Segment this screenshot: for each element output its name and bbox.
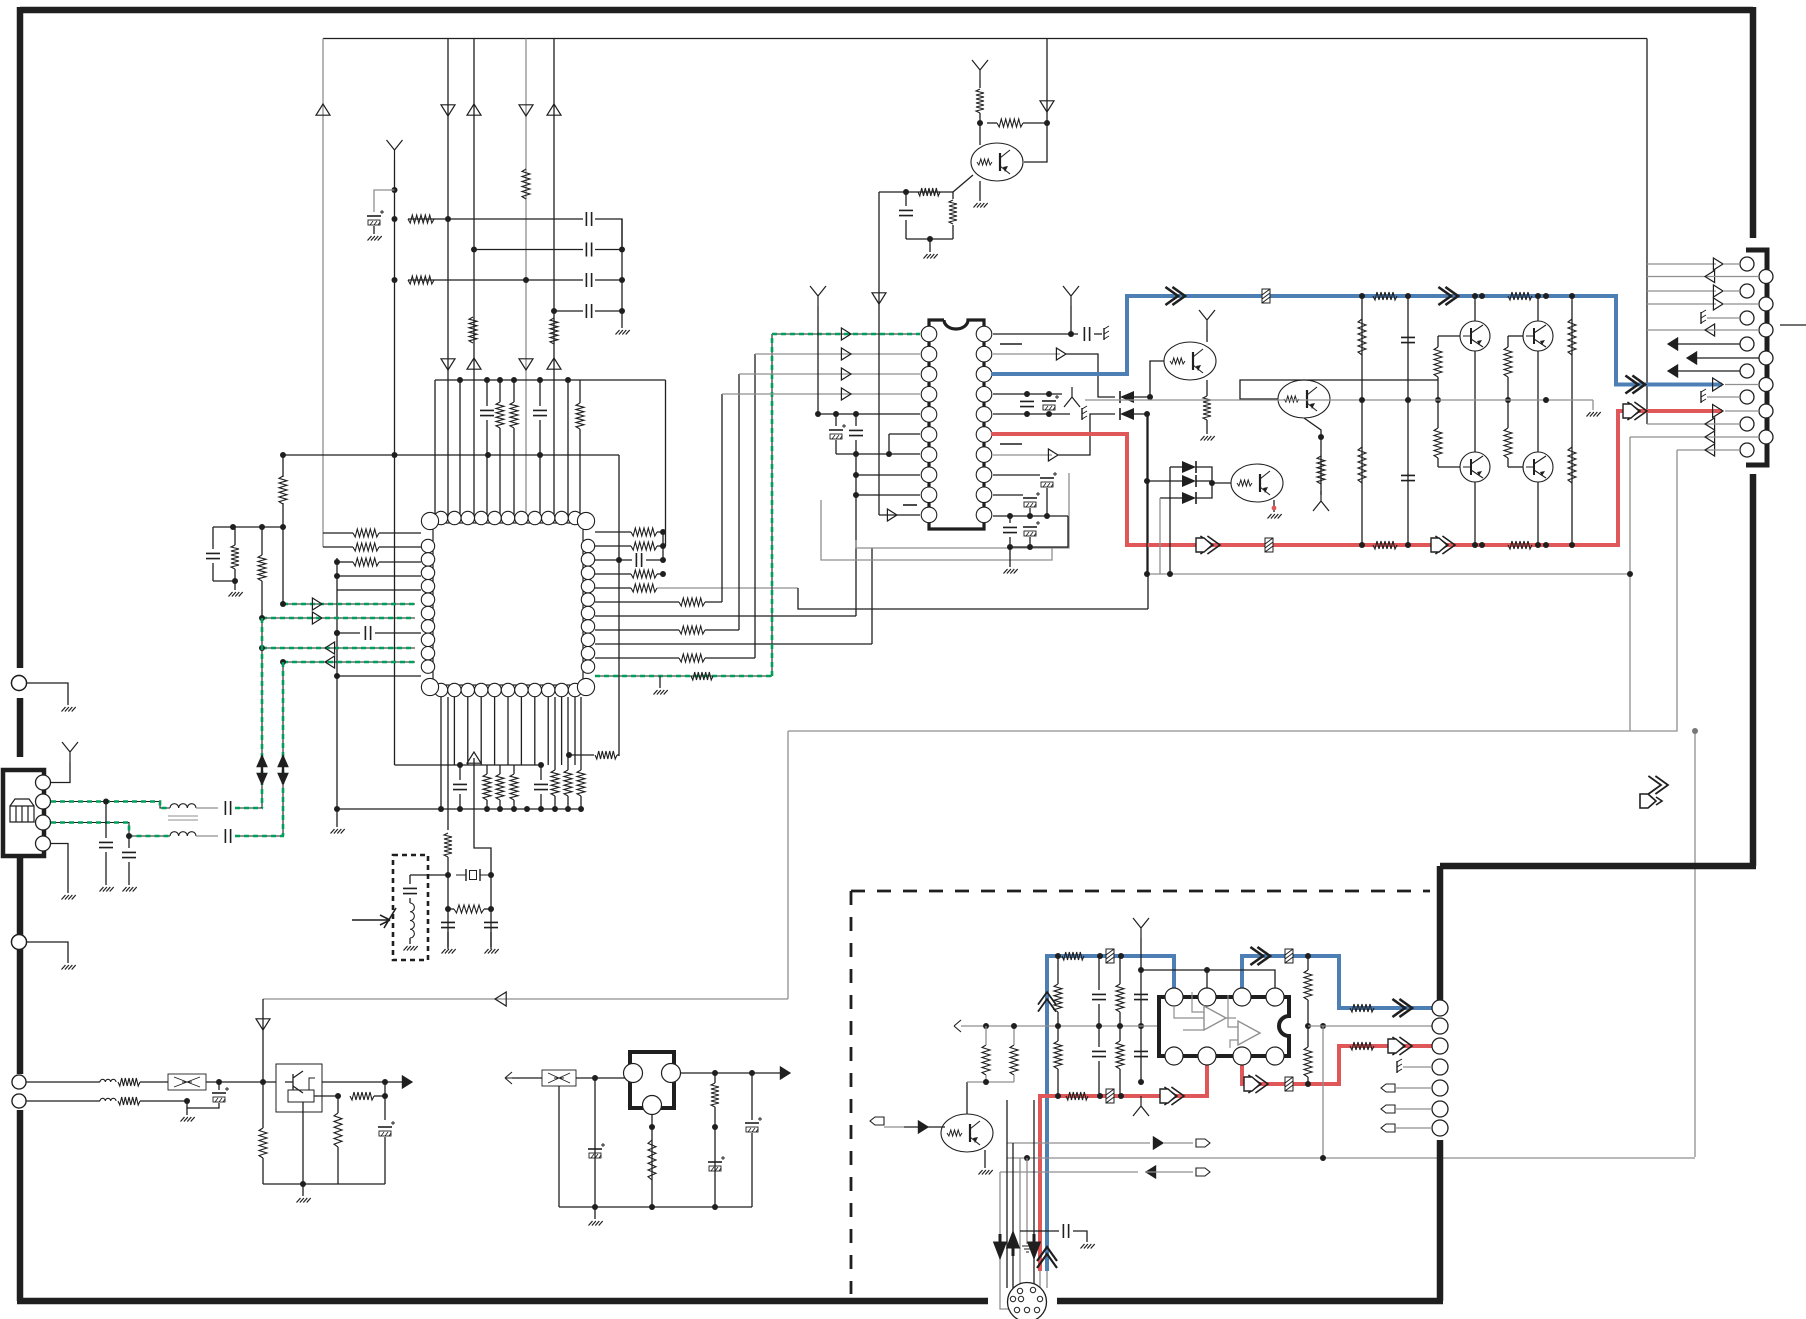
wire [499, 800, 501, 809]
wire [1146, 1171, 1193, 1173]
resistor R3 [408, 276, 434, 284]
resistor R30 [444, 833, 452, 857]
page border right mid [1750, 474, 1757, 866]
wire [1507, 458, 1509, 467]
wire [1029, 537, 1031, 547]
capacitor C17 [849, 430, 863, 435]
wire [128, 836, 130, 848]
junction [1535, 542, 1541, 548]
wire [1009, 537, 1011, 547]
junction [488, 872, 494, 878]
resistor R29 [595, 751, 617, 759]
arrow/buffer [519, 359, 533, 370]
resistor R67 [982, 1045, 990, 1075]
connector pin [1759, 323, 1773, 337]
wire [1647, 290, 1716, 292]
wire [539, 380, 541, 406]
wire [651, 1115, 653, 1207]
wire [579, 429, 581, 516]
wire [322, 39, 324, 548]
connector pin [1759, 404, 1773, 418]
ground [1201, 436, 1215, 441]
wire [408, 279, 583, 281]
signal arrow open [1196, 538, 1212, 552]
wire [835, 440, 837, 454]
ferrite bead FB3 [1106, 949, 1114, 963]
junction [712, 1124, 718, 1130]
wire [1723, 263, 1740, 265]
IC pin [1266, 988, 1284, 1006]
wire [993, 454, 1052, 456]
signal arrow open [1244, 1077, 1260, 1091]
wire [474, 249, 583, 251]
arrow/buffer [1713, 378, 1723, 391]
ground [229, 592, 243, 597]
junction [1027, 544, 1033, 550]
dashed enclosure [851, 891, 1430, 1294]
resistor R14 [353, 558, 379, 566]
wire [512, 1077, 542, 1079]
junction [619, 308, 625, 314]
wire [490, 932, 492, 947]
resistor R13 [353, 543, 379, 551]
wire [282, 503, 284, 604]
inductor L1 [410, 903, 414, 938]
tick mark [1780, 324, 1806, 326]
wire [595, 219, 622, 250]
junction [538, 806, 544, 812]
junction [1318, 434, 1324, 440]
wire [26, 1100, 100, 1102]
transistor Q8 [1523, 452, 1553, 482]
wire [595, 545, 631, 547]
arrow/buffer [402, 1076, 412, 1088]
arrow/buffer [780, 1067, 790, 1079]
wire [410, 874, 448, 876]
wire [263, 998, 788, 1000]
junction [1320, 1023, 1326, 1029]
capacitor C40 [1134, 1051, 1148, 1056]
wire [1361, 296, 1363, 545]
arrow/buffer [918, 1121, 928, 1133]
junction [392, 187, 398, 193]
wire [459, 794, 461, 809]
junction [1692, 728, 1698, 734]
junction [260, 1079, 266, 1085]
wire [447, 39, 449, 517]
wire [1010, 516, 1068, 547]
wire [434, 218, 583, 220]
connector pin [1432, 1101, 1448, 1117]
connector flag [1381, 1124, 1395, 1132]
wire [595, 249, 622, 251]
junction [552, 806, 558, 812]
junction [619, 277, 625, 283]
wire [499, 380, 501, 402]
signal arrow [1392, 1037, 1412, 1055]
wire [836, 453, 920, 455]
junction [259, 645, 265, 651]
wire feedback C [1694, 731, 1696, 1157]
signal arrow open [1640, 794, 1662, 808]
inductor L2 [170, 804, 196, 808]
junction [1204, 967, 1210, 973]
wire [336, 558, 338, 809]
wire [196, 807, 218, 809]
red dot [1272, 506, 1277, 511]
junction [392, 216, 398, 222]
junction [1024, 391, 1030, 397]
signal arrow [1435, 536, 1455, 554]
capacitor (electrolytic) C35 [708, 1161, 722, 1163]
capacitor C7 [533, 410, 547, 415]
page border top [20, 7, 1753, 14]
capacitor C41 [1063, 1224, 1068, 1238]
signal arrow [1392, 999, 1412, 1017]
wire [1395, 1087, 1432, 1089]
wire [576, 1077, 630, 1079]
signal arrow open [1160, 1089, 1176, 1103]
IC U3 audio op-amp body [1159, 997, 1289, 1056]
junction [649, 1204, 655, 1210]
wire [953, 175, 973, 192]
filter FL1 [168, 1074, 206, 1090]
signal arrow [1248, 1075, 1268, 1093]
ground [1268, 514, 1282, 519]
wire [1066, 354, 1115, 397]
junction [1046, 391, 1052, 397]
junction [1144, 478, 1150, 484]
arrow/buffer [547, 358, 561, 369]
wire [1046, 488, 1048, 516]
blue audio L trace [991, 296, 1722, 385]
ground [62, 707, 76, 712]
capacitor C6 [480, 410, 494, 415]
junction [1118, 953, 1124, 959]
wire [1146, 414, 1148, 574]
connector pin [36, 775, 51, 790]
wire [1723, 303, 1759, 305]
capacitor (electrolytic) C21 [1040, 477, 1054, 479]
wire [595, 310, 622, 312]
wire [1019, 1158, 1021, 1292]
connector pin [1432, 1059, 1448, 1075]
wire [459, 765, 461, 780]
wire [513, 380, 515, 402]
wire [835, 414, 837, 426]
wire [1723, 290, 1740, 292]
wire [979, 181, 981, 201]
wire [447, 932, 449, 947]
signal arrow [1165, 287, 1185, 305]
wire [595, 587, 631, 589]
capacitor (electrolytic) C16 [829, 429, 843, 431]
junction [853, 492, 859, 498]
wire [408, 218, 434, 220]
wire [705, 601, 722, 603]
wire [1160, 497, 1182, 499]
wire [1057, 1069, 1059, 1096]
antenna [810, 286, 826, 306]
resistor R23 [483, 774, 491, 800]
wire [1307, 1000, 1309, 1026]
connector pin [1432, 1038, 1448, 1054]
wire [993, 333, 1078, 335]
junction [1044, 120, 1050, 126]
arrow/buffer [312, 612, 322, 624]
wire [855, 414, 857, 426]
wire [1206, 330, 1208, 342]
capacitor C23 [1003, 527, 1017, 532]
wire [486, 380, 488, 406]
capacitor C39 [1134, 994, 1148, 999]
ground [1587, 412, 1601, 417]
wire [906, 238, 953, 240]
capacitor C28 [225, 801, 230, 815]
connector pin [1432, 1080, 1448, 1096]
ferrite bead FB4 [1285, 949, 1293, 963]
connector CN1 bracket [1746, 250, 1767, 465]
wire [1206, 970, 1208, 990]
arrow/buffer [1153, 1137, 1163, 1149]
wire [1057, 956, 1059, 984]
wire [513, 800, 515, 809]
wire [234, 527, 236, 545]
wire [1119, 1026, 1121, 1041]
connector flag [1381, 1084, 1395, 1092]
capacitor C11 [453, 784, 467, 789]
wire [888, 434, 890, 454]
junction [833, 411, 839, 417]
ground [1004, 569, 1018, 574]
shielded wire [51, 802, 170, 809]
wire [1668, 370, 1740, 372]
junction [660, 571, 666, 577]
antenna [972, 60, 988, 80]
wire [1322, 1026, 1324, 1157]
wire [1273, 500, 1275, 512]
resistor R6 [496, 402, 504, 428]
signal arrow [1648, 776, 1668, 794]
blue trace bottom [1047, 956, 1174, 1271]
ferrite bead FB2 [1265, 538, 1273, 552]
wire [1307, 1026, 1309, 1047]
ground [297, 1198, 311, 1203]
wire [1046, 39, 1048, 124]
wire [952, 225, 954, 239]
wire [1134, 361, 1164, 397]
wire [751, 1073, 753, 1120]
junction [300, 1181, 306, 1187]
capacitor C3 [586, 243, 591, 257]
wire [1134, 413, 1147, 415]
ground [331, 829, 345, 834]
wire [929, 239, 931, 252]
wire [51, 762, 70, 783]
resistor R62 [1054, 1041, 1062, 1069]
wire [212, 563, 214, 581]
wire [480, 697, 482, 765]
shielded wire [261, 618, 263, 808]
wire [1094, 333, 1102, 335]
IC pin [1266, 1047, 1284, 1065]
junction [537, 452, 543, 458]
capacitor (electrolytic) C33 [378, 1126, 392, 1128]
junction [1118, 1093, 1124, 1099]
wire [1537, 482, 1539, 545]
resistor R42 [1434, 347, 1442, 377]
connector flag [1196, 1168, 1210, 1176]
wire [561, 697, 563, 765]
junction [660, 557, 666, 563]
connector pin [12, 1094, 26, 1108]
wire [580, 697, 582, 770]
wire [979, 113, 981, 145]
wire [739, 373, 920, 375]
wire [540, 794, 542, 809]
junction [1144, 411, 1150, 417]
wire [337, 1096, 339, 1113]
junction [1046, 411, 1052, 417]
arrow/buffer [1705, 444, 1715, 456]
wire [534, 697, 536, 765]
wire [323, 532, 353, 534]
junction [1007, 544, 1013, 550]
wire [234, 581, 236, 590]
junction [1569, 293, 1575, 299]
wire [212, 527, 214, 549]
wire [579, 380, 581, 403]
inductor L5 [100, 1098, 116, 1101]
polarity mark [1000, 443, 1022, 445]
page border right upper [1750, 7, 1757, 238]
antenna (inverted) [1313, 491, 1329, 511]
wire [594, 1207, 596, 1219]
transistor (digital) Q9 [941, 1114, 993, 1152]
varactor module (dashed box) [393, 855, 428, 960]
arrow/buffer [467, 358, 481, 369]
wire [322, 1081, 385, 1083]
wire [871, 548, 873, 644]
signal arrow [1627, 402, 1647, 420]
wire [484, 908, 491, 910]
resistor R20 [679, 626, 705, 634]
diode D4 [1182, 475, 1196, 487]
junction [382, 1079, 388, 1085]
junction [485, 452, 491, 458]
wire [879, 514, 920, 516]
capacitor C37 [1092, 994, 1106, 999]
connector flag [870, 1117, 884, 1125]
wire [337, 675, 421, 677]
wire [1057, 1012, 1059, 1026]
resistor R47 [1358, 447, 1366, 483]
arrow/buffer [872, 293, 886, 304]
capacitor (electrolytic) C34 [588, 1148, 602, 1150]
resistor R2 [408, 215, 434, 223]
resistor R48 [1568, 319, 1576, 355]
wire [967, 1081, 1014, 1083]
wire [1020, 1230, 1059, 1232]
transistor Q5 [1460, 321, 1490, 351]
wire [1308, 1025, 1436, 1027]
IC pin [1198, 988, 1216, 1006]
diode D5 [1182, 492, 1196, 504]
ground [924, 254, 938, 259]
arrow/buffer [495, 992, 506, 1006]
wire [1712, 423, 1740, 425]
resistor R17 [631, 570, 657, 578]
wire [1647, 303, 1716, 305]
wire [473, 39, 475, 517]
resistor R63 [1116, 984, 1124, 1012]
wire [440, 697, 442, 765]
wire [27, 942, 68, 963]
shielded wire [283, 603, 415, 605]
junction [551, 308, 557, 314]
wire [993, 474, 1040, 476]
wire [722, 393, 920, 395]
resistor R40 [1203, 396, 1211, 420]
resistor R21 [679, 654, 705, 662]
wire [494, 697, 496, 765]
resistor R31 [454, 905, 484, 913]
junction [1627, 571, 1633, 577]
wire [979, 80, 981, 88]
wire [1196, 480, 1212, 482]
junction [471, 247, 477, 253]
wire [705, 657, 755, 659]
antenna [1133, 918, 1149, 938]
wire [1098, 1061, 1100, 1096]
junction [1305, 953, 1311, 959]
wire [878, 192, 880, 515]
connector pin [1740, 337, 1754, 351]
wire [1196, 467, 1231, 483]
junction [438, 806, 444, 812]
junction [457, 762, 463, 768]
wire [993, 413, 1070, 415]
arrow/buffer [1705, 271, 1715, 283]
junction [749, 1070, 755, 1076]
shielded wire [51, 823, 170, 837]
wire ground bus [337, 808, 582, 810]
junction [927, 236, 933, 242]
wire [336, 809, 338, 827]
wire [1647, 263, 1716, 265]
junction [184, 1098, 190, 1104]
mount point [12, 676, 27, 691]
arrow/buffer [1713, 258, 1723, 270]
resistor R54 [334, 1113, 342, 1147]
wire [1437, 400, 1439, 428]
arrow/buffer [441, 105, 455, 116]
wire [26, 1081, 100, 1083]
chassis ground [1082, 406, 1087, 420]
wire [1000, 1171, 1138, 1173]
resistor R15 [631, 528, 657, 536]
wire [1647, 276, 1712, 278]
capacitor (electrolytic) C32 [212, 1092, 226, 1094]
resistor R5 [550, 318, 558, 344]
wire [1395, 1108, 1432, 1110]
wire [375, 632, 421, 634]
wire [880, 191, 953, 193]
wire [1508, 466, 1523, 468]
wire feedback A2 [1629, 437, 1631, 731]
junction [280, 524, 286, 530]
wire [1007, 1142, 1150, 1144]
